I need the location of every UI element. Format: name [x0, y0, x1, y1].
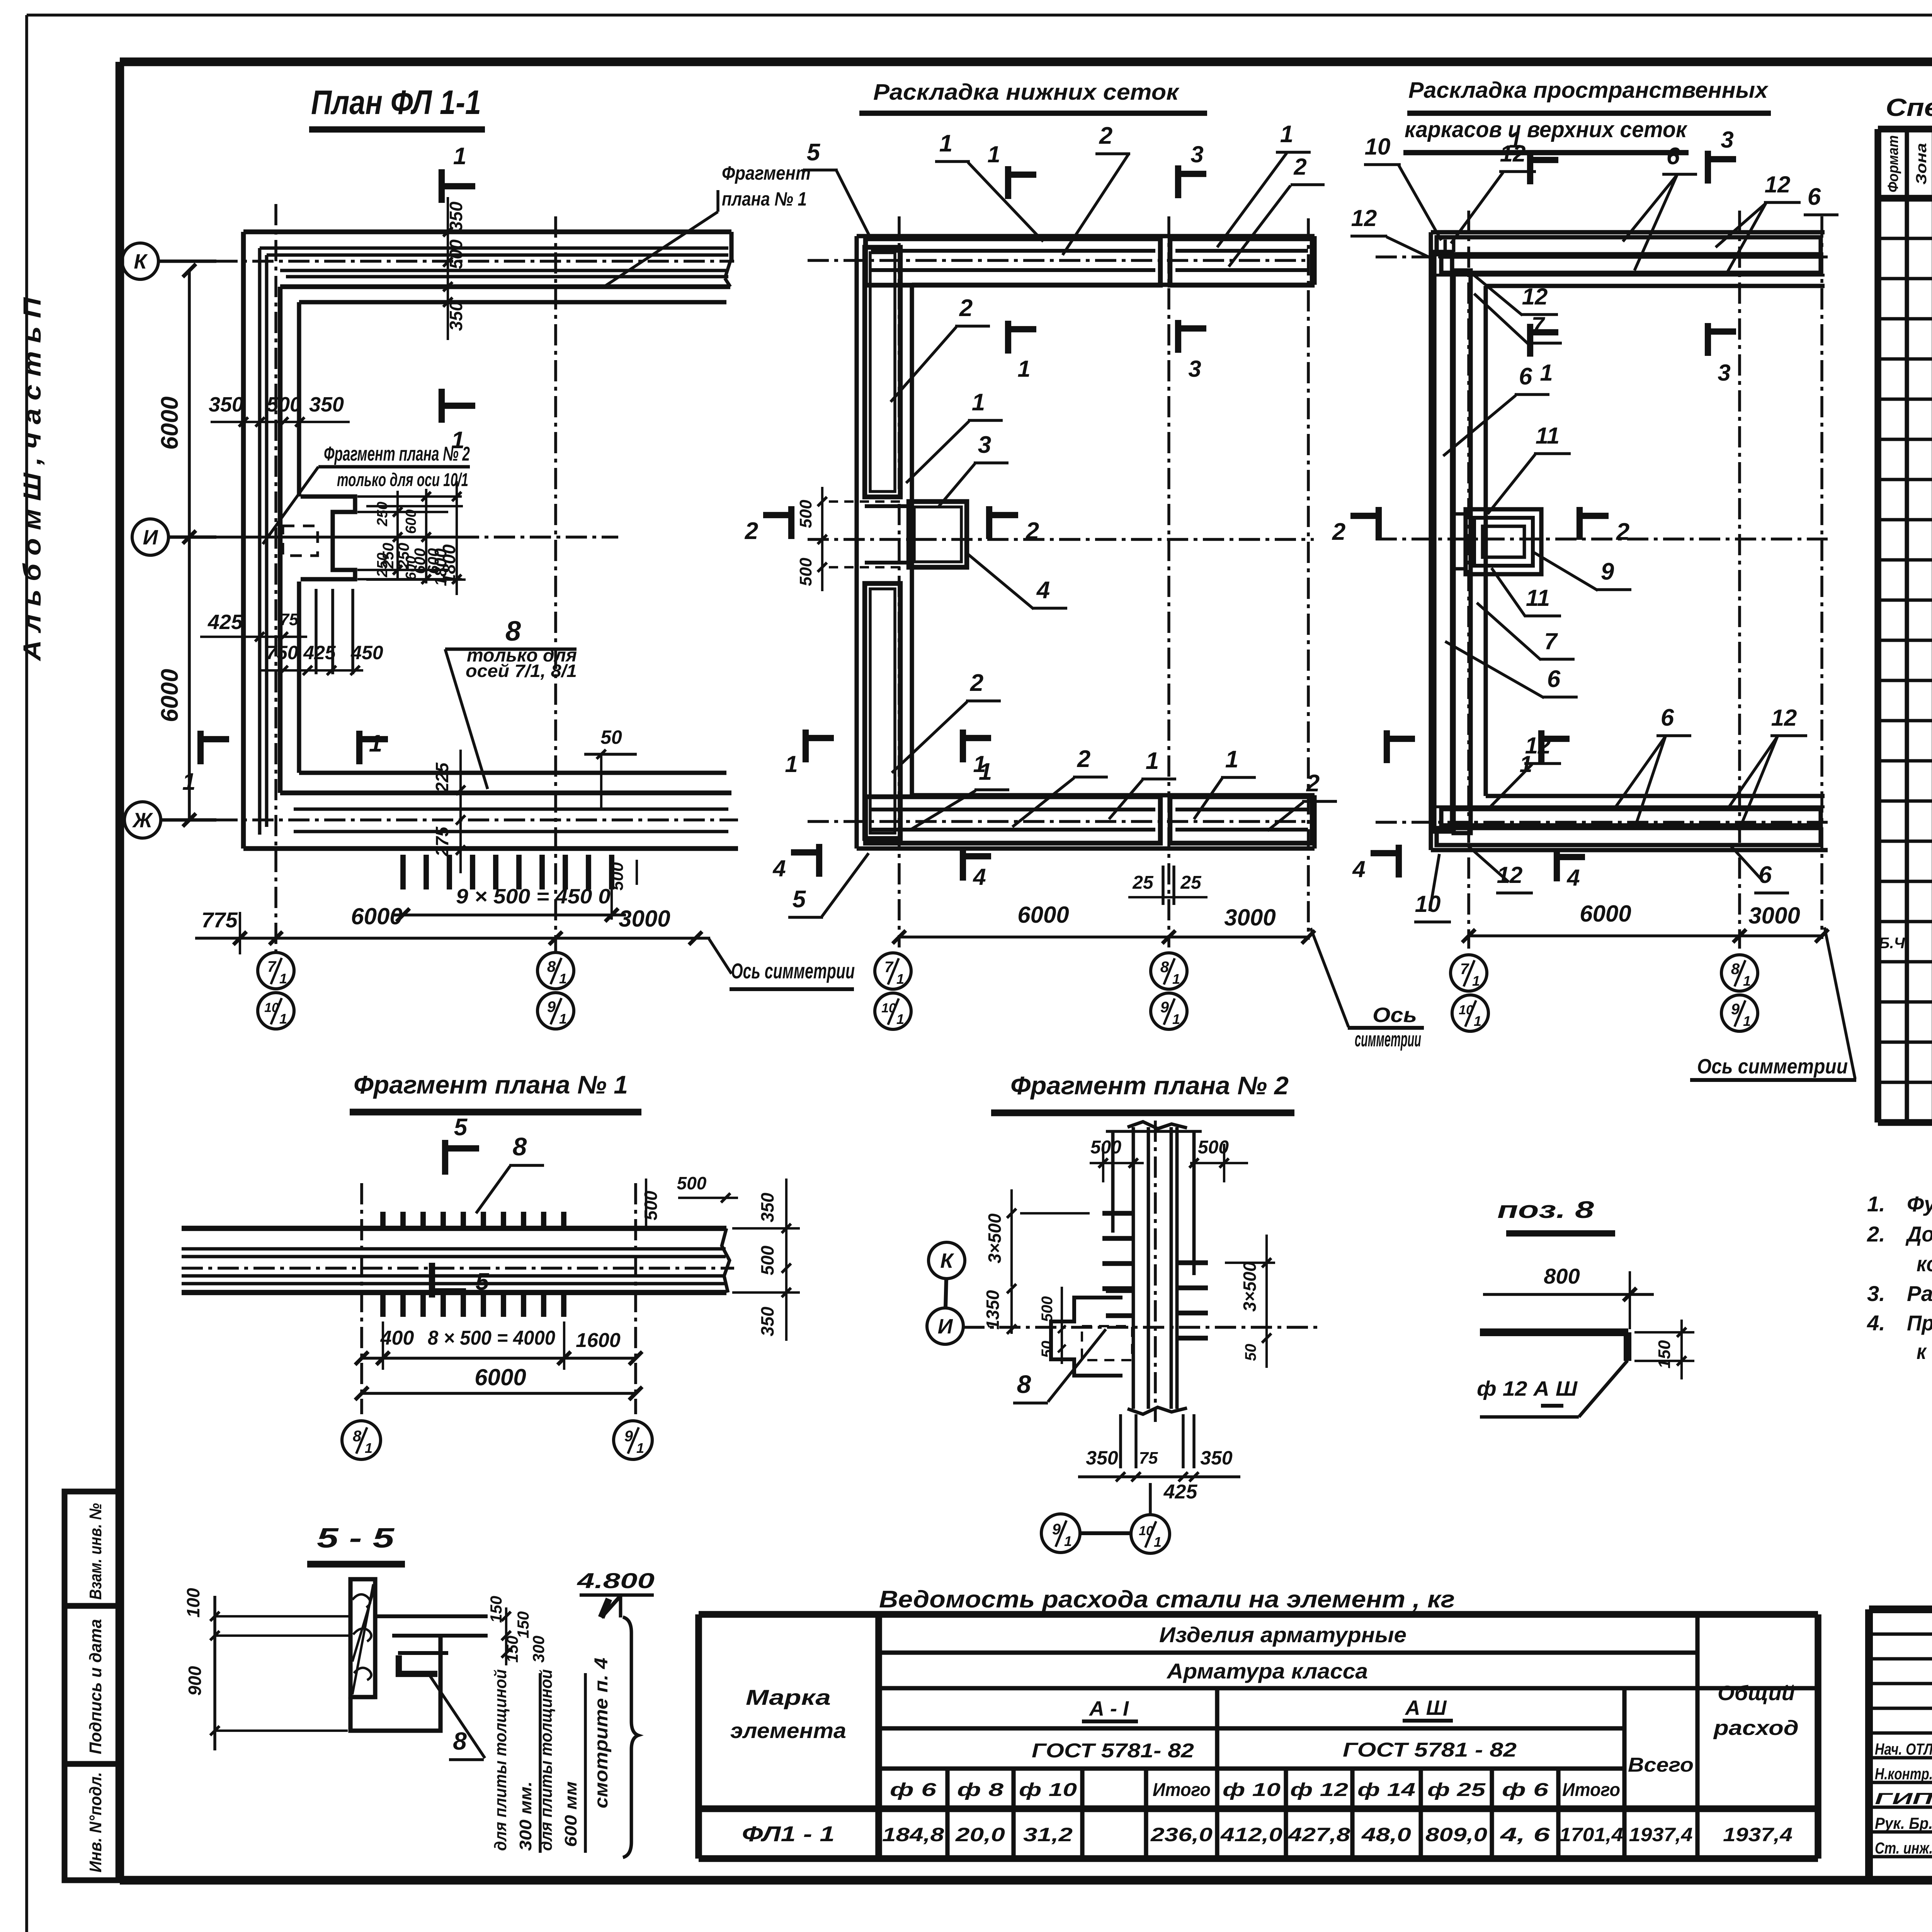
svg-text:6000: 6000	[1580, 901, 1631, 927]
svg-text:Раскладка пространственных: Раскладка пространственных	[1408, 78, 1769, 103]
svg-text:12: 12	[1522, 284, 1548, 310]
plan1 I-axis column notch	[301, 497, 355, 579]
svg-text:400: 400	[380, 1327, 414, 1349]
svg-text:800: 800	[1544, 1264, 1580, 1288]
svg-text:ф 6: ф 6	[890, 1780, 936, 1800]
svg-text:3: 3	[1188, 356, 1201, 382]
svg-text:Инв. N°подл.: Инв. N°подл.	[86, 1772, 105, 1872]
frag2 axis circle 9/1	[1041, 1514, 1080, 1553]
svg-text:9: 9	[624, 1428, 633, 1445]
svg-text:25: 25	[1180, 872, 1202, 893]
svg-text:Итого: Итого	[1153, 1780, 1211, 1800]
svg-text:6: 6	[1759, 862, 1772, 888]
plan1 notch dashed box	[283, 526, 318, 556]
svg-text:Ось: Ось	[1372, 1003, 1417, 1027]
svg-text:только для оси 10/1: только для оси 10/1	[337, 470, 468, 490]
svg-text:К: К	[940, 1249, 954, 1272]
svg-text:Ось симметрии: Ось симметрии	[1697, 1055, 1848, 1078]
svg-text:3×500: 3×500	[1240, 1262, 1260, 1312]
frag2 strip top stub lines	[1111, 1131, 1115, 1233]
svg-text:6: 6	[1808, 184, 1821, 210]
frag1 rebar ticks bottom	[380, 1291, 386, 1317]
svg-text:10: 10	[1415, 891, 1441, 917]
title block signature grid	[1869, 1633, 1932, 1636]
svg-text:3: 3	[1718, 360, 1730, 386]
svg-text:Фрагмент: Фрагмент	[722, 162, 811, 184]
plan3 karkas rects bottom	[1437, 828, 1821, 845]
svg-text:900: 900	[185, 1666, 205, 1696]
plan1 section markers 1 left bottom	[197, 731, 204, 764]
plan3 symmetry axis right	[1820, 216, 1823, 939]
vedomost header rows	[879, 1650, 1697, 1655]
plan3 karkas rects top	[1437, 237, 1821, 254]
svg-text:ФЛ1 - 1: ФЛ1 - 1	[742, 1821, 835, 1846]
svg-text:для плиты толщиной: для плиты толщиной	[491, 1669, 510, 1851]
sheet outer thin border	[27, 14, 1932, 17]
svg-text:150: 150	[1655, 1340, 1674, 1369]
svg-text:8: 8	[505, 616, 521, 647]
frag2 strip breaks	[1128, 1122, 1187, 1129]
svg-text:1: 1	[636, 1440, 644, 1456]
svg-text:775: 775	[201, 908, 238, 932]
svg-text:Н.контр.: Н.контр.	[1875, 1765, 1932, 1783]
svg-text:12: 12	[1771, 705, 1797, 731]
svg-text:Ось симметрии: Ось симметрии	[731, 959, 855, 983]
svg-text:ф 6: ф 6	[1502, 1780, 1548, 1800]
plan3 axis circle 7/1	[1451, 955, 1487, 991]
svg-text:1: 1	[369, 730, 382, 757]
svg-text:500: 500	[757, 1245, 777, 1275]
plan2 axis 7/1 vertical	[898, 216, 901, 947]
plan3 flags top	[1527, 151, 1533, 184]
svg-text:симметрии: симметрии	[1355, 1028, 1421, 1051]
svg-text:расход: расход	[1713, 1716, 1799, 1740]
svg-text:ГИП: ГИП	[1875, 1789, 1932, 1808]
svg-text:1: 1	[453, 143, 466, 170]
plan2 flags mid	[1005, 321, 1011, 354]
svg-text:5: 5	[793, 886, 806, 913]
frag1 strip lines	[182, 1226, 726, 1231]
svg-text:ф 14: ф 14	[1357, 1780, 1415, 1800]
spec table row lines	[1878, 237, 1932, 240]
svg-text:150: 150	[503, 1636, 521, 1663]
svg-text:для плиты толщиной: для плиты толщиной	[537, 1669, 556, 1851]
svg-text:8: 8	[1731, 961, 1740, 978]
svg-text:Всего: Всего	[1628, 1754, 1694, 1776]
svg-text:А Ш: А Ш	[1405, 1696, 1447, 1719]
svg-text:7: 7	[1460, 961, 1469, 978]
svg-text:Итого: Итого	[1562, 1780, 1620, 1800]
svg-text:8: 8	[353, 1428, 362, 1445]
svg-text:1: 1	[1154, 1534, 1162, 1550]
plan1 axis circle 7/1 bottom	[258, 952, 294, 989]
svg-text:ф 10: ф 10	[1019, 1780, 1077, 1800]
plan1 top strip outer contour	[243, 230, 731, 235]
plan2 mesh rect top 2	[1170, 239, 1312, 285]
svg-text:6: 6	[1667, 143, 1680, 170]
plan3 axis 7/1 vertical	[1467, 211, 1470, 949]
5-5 pos8 rebar bar	[399, 1655, 437, 1674]
svg-text:5: 5	[476, 1269, 490, 1295]
5-5 step shape	[350, 1636, 440, 1731]
svg-text:450: 450	[350, 642, 383, 663]
plan1 axis circle 10/1 bottom	[258, 993, 294, 1029]
plan3 flags 4 bottom	[1396, 845, 1402, 878]
frag2 I axis step shape	[1051, 1298, 1122, 1376]
svg-text:Раскладка нижних сеток: Раскладка нижних сеток	[873, 80, 1180, 105]
svg-text:275: 275	[432, 826, 452, 857]
svg-text:Рук. Бр.: Рук. Бр.	[1875, 1814, 1932, 1832]
svg-text:каркасов и верхних сеток: каркасов и верхних сеток	[1405, 117, 1687, 142]
svg-text:20,0: 20,0	[955, 1824, 1005, 1845]
svg-text:250: 250	[395, 543, 412, 569]
svg-text:150: 150	[487, 1596, 505, 1623]
svg-text:250: 250	[380, 543, 397, 569]
svg-text:1: 1	[559, 971, 567, 986]
pos8 bar vertical thick	[1624, 1332, 1631, 1361]
svg-text:Ведомость расхода стали на: Ведомость расхода стали на элемент , кг	[879, 1586, 1455, 1613]
svg-text:500: 500	[641, 1190, 661, 1220]
svg-text:75: 75	[1139, 1449, 1158, 1468]
plan1 top strip inner lines	[260, 247, 728, 250]
svg-text:5: 5	[807, 139, 821, 166]
svg-text:1: 1	[279, 971, 287, 986]
svg-text:3×500: 3×500	[985, 1213, 1005, 1264]
svg-text:1: 1	[896, 971, 904, 987]
svg-text:ф 12: ф 12	[1290, 1780, 1348, 1800]
sidebar box Inv no podl	[65, 1764, 120, 1880]
svg-text:4: 4	[1036, 577, 1050, 604]
svg-text:3.: 3.	[1867, 1281, 1885, 1306]
svg-text:48,0: 48,0	[1361, 1824, 1412, 1845]
svg-text:5: 5	[454, 1114, 468, 1141]
svg-text:План ФЛ 1-1: План ФЛ 1-1	[311, 83, 481, 121]
svg-text:3000: 3000	[1748, 903, 1800, 929]
plan3 outer contour	[1431, 230, 1825, 234]
svg-text:к фундаменту смотреть лист: к фундаменту смотреть листы.	[1917, 1339, 1932, 1364]
svg-text:31,2: 31,2	[1023, 1824, 1073, 1845]
plan2 axis circle 7/1	[875, 953, 911, 989]
plan3 axis circle 8/1	[1721, 955, 1758, 991]
plan3 I-axis nested squares	[1466, 509, 1541, 574]
svg-text:25: 25	[1132, 872, 1154, 893]
plan1 section marker 1 top	[439, 169, 445, 203]
svg-text:2: 2	[1306, 770, 1320, 797]
plan2 mesh rect left lower	[865, 583, 900, 838]
svg-text:4.: 4.	[1867, 1311, 1885, 1335]
plan3 flags mid	[1527, 324, 1533, 357]
frag2 bottom stubs	[1119, 1414, 1122, 1468]
5-5 floor lines right	[375, 1614, 488, 1618]
frag1 section marker 5 mid	[429, 1263, 435, 1298]
svg-text:1: 1	[1474, 1013, 1481, 1029]
svg-text:3: 3	[1190, 141, 1203, 167]
svg-text:350: 350	[209, 393, 243, 416]
svg-text:ф 8: ф 8	[957, 1780, 1003, 1800]
svg-text:9: 9	[1160, 999, 1169, 1016]
svg-text:9: 9	[1601, 558, 1614, 585]
svg-text:1: 1	[1280, 121, 1293, 148]
frag1 axis 9/1 vertical	[634, 1183, 637, 1414]
plan1 top strip right end	[729, 232, 733, 261]
svg-text:1: 1	[1472, 973, 1480, 989]
frag2 strip center dash	[1154, 1121, 1157, 1422]
svg-text:Общий: Общий	[1718, 1682, 1795, 1705]
svg-text:750: 750	[266, 642, 298, 663]
svg-text:2: 2	[1332, 519, 1345, 545]
svg-text:500: 500	[796, 500, 815, 528]
title block outer	[1869, 1605, 1932, 1613]
plan1 extension verticals below notch	[315, 589, 318, 674]
svg-text:1: 1	[559, 1011, 567, 1027]
svg-text:6000: 6000	[156, 396, 183, 450]
svg-text:7: 7	[1531, 312, 1545, 338]
frag1-frag2 shared axis circle K	[929, 1242, 965, 1279]
frag1 rebar ticks top	[380, 1212, 386, 1231]
axis line K dash-dot	[216, 260, 734, 263]
svg-text:6000: 6000	[1017, 902, 1069, 928]
svg-text:А л ь б о м Ш , ч а с т ь П: А л ь б о м Ш , ч а с т ь П	[18, 297, 46, 662]
frag2 axis circle 10/1	[1131, 1515, 1170, 1553]
axis line Zh dash-dot	[216, 818, 738, 821]
svg-text:1: 1	[979, 759, 992, 785]
plan1 bottom strip outer contour	[243, 846, 738, 851]
svg-text:2: 2	[745, 518, 758, 544]
svg-text:8: 8	[1017, 1370, 1031, 1398]
drawing frame thick	[120, 58, 1932, 66]
svg-text:350: 350	[309, 393, 344, 416]
frag2 I axis dash line	[963, 1326, 1321, 1329]
plan3 strip inner lines bottom	[1434, 805, 1825, 808]
vedomost outer box	[699, 1611, 1818, 1618]
svg-text:1: 1	[1172, 1011, 1180, 1027]
svg-text:10: 10	[1365, 134, 1391, 160]
plan1 inner step contour bottom	[299, 770, 726, 775]
plan1 bottom strip inner lines	[294, 808, 728, 811]
axis line 8/1 vertical	[554, 216, 557, 954]
svg-text:50: 50	[600, 726, 622, 748]
plan3 axis circle 9/1	[1721, 995, 1758, 1031]
svg-text:10: 10	[264, 1000, 279, 1015]
svg-text:500: 500	[267, 393, 301, 416]
svg-text:2: 2	[959, 295, 973, 321]
svg-text:11: 11	[1526, 585, 1550, 611]
svg-text:500: 500	[1090, 1137, 1121, 1158]
svg-text:9: 9	[1052, 1521, 1061, 1538]
svg-text:425: 425	[1163, 1481, 1198, 1503]
svg-text:12: 12	[1765, 172, 1791, 197]
svg-text:12: 12	[1500, 141, 1526, 167]
plan1 inner step contour top	[299, 300, 726, 304]
svg-text:Фундамент разработан в соотв: Фундамент разработан в соответствии с се…	[1907, 1192, 1932, 1216]
svg-text:1: 1	[1172, 971, 1180, 987]
plan2 outer contour	[857, 234, 1315, 238]
plan3 axis I dash	[1376, 537, 1828, 541]
svg-text:12: 12	[1525, 733, 1551, 759]
svg-text:4: 4	[1566, 865, 1580, 891]
svg-text:Фрагмент плана № 2: Фрагмент плана № 2	[324, 443, 470, 465]
pos8 bar horizontal thick	[1480, 1328, 1628, 1336]
svg-text:6: 6	[1661, 704, 1674, 731]
svg-text:ф 12 А Ш: ф 12 А Ш	[1477, 1377, 1578, 1400]
svg-text:колонн по чертежам серии: колонн по чертежам серии У - 01 - 01 / 8…	[1917, 1252, 1932, 1276]
svg-text:Подпись и дата: Подпись и дата	[86, 1619, 105, 1754]
svg-text:225: 225	[432, 762, 452, 793]
svg-text:500: 500	[677, 1173, 707, 1193]
svg-text:1: 1	[972, 389, 985, 416]
frag2 left rebar ticks	[1102, 1211, 1133, 1216]
svg-text:6: 6	[1547, 666, 1561, 692]
svg-text:поз. 8: поз. 8	[1497, 1197, 1594, 1223]
svg-text:ГОСТ 5781 - 82: ГОСТ 5781 - 82	[1343, 1739, 1517, 1761]
plan1 rebar ticks bottom 9x500	[400, 855, 406, 889]
plan1 inner step contour left	[297, 302, 301, 497]
svg-text:2: 2	[1077, 746, 1090, 772]
svg-text:Ст. инж.: Ст. инж.	[1875, 1839, 1932, 1857]
svg-text:500: 500	[1039, 1296, 1056, 1322]
svg-text:3: 3	[978, 432, 991, 458]
plan3 axis Zh dash	[1376, 821, 1828, 824]
plan2 axis K dash	[808, 259, 1314, 262]
svg-text:9 × 500 = 450 0: 9 × 500 = 450 0	[456, 885, 611, 908]
plan1 axis circle 9/1 bottom	[537, 993, 574, 1029]
svg-text:К: К	[134, 250, 148, 273]
svg-text:6000: 6000	[351, 903, 402, 929]
plan2 axis Zh dash	[808, 820, 1314, 823]
svg-text:5 - 5: 5 - 5	[317, 1523, 395, 1554]
svg-text:1: 1	[1743, 1013, 1751, 1029]
plan2 axis circle 8/1	[1151, 953, 1187, 989]
svg-text:Разрезы с 1 -1 по 4 - 4: Разрезы с 1 -1 по 4 - 4 см. серию У - 01…	[1907, 1281, 1932, 1306]
plan3 axis circle 10/1	[1452, 995, 1488, 1031]
axis circle I left	[132, 519, 168, 555]
plan2 flags 4 bottom	[816, 844, 822, 877]
frag1 axis circle 8/1	[342, 1421, 381, 1459]
plan2 mesh rect bottom 2	[1170, 797, 1312, 843]
svg-text:600: 600	[403, 509, 419, 534]
svg-text:9: 9	[1731, 1001, 1740, 1018]
plan2 mesh rect left upper	[865, 247, 900, 497]
svg-text:3000: 3000	[1224, 905, 1276, 930]
svg-text:7: 7	[1544, 628, 1558, 654]
svg-text:6000: 6000	[474, 1364, 526, 1390]
frag2 vertical strip lines	[1132, 1127, 1135, 1409]
svg-text:2: 2	[1616, 519, 1629, 545]
axis line 7/1 vertical	[274, 204, 277, 954]
svg-text:8 × 500 = 4000: 8 × 500 = 4000	[428, 1327, 555, 1349]
svg-text:350: 350	[757, 1192, 777, 1222]
sidebar box Podpis i data	[65, 1606, 120, 1764]
svg-text:До бетонирования фундамента: До бетонирования фундамента должны быть …	[1905, 1222, 1932, 1246]
frag1 strip centerline dash	[182, 1267, 734, 1270]
svg-text:Спецификация к фундаменту мо: Спецификация к фундаменту монолитному ФЛ…	[1886, 94, 1932, 121]
svg-text:Нач. ОТЛ: Нач. ОТЛ	[1875, 1740, 1932, 1758]
plan2 flags top	[1005, 166, 1011, 199]
svg-text:1: 1	[987, 141, 1000, 167]
svg-text:1: 1	[785, 751, 798, 777]
svg-text:50: 50	[1039, 1341, 1056, 1358]
svg-text:2: 2	[1293, 154, 1306, 180]
plan3 section marker 2 left	[1376, 507, 1382, 540]
svg-text:1: 1	[1225, 746, 1238, 773]
plan3 karkas rects left	[1434, 252, 1452, 832]
svg-text:809,0: 809,0	[1425, 1824, 1487, 1845]
svg-text:4, 6: 4, 6	[1500, 1824, 1550, 1845]
svg-text:осей 7/1, 8/1: осей 7/1, 8/1	[466, 661, 577, 681]
svg-text:4: 4	[1352, 856, 1365, 882]
svg-text:1350: 1350	[983, 1290, 1003, 1330]
spec table outer and header lines	[1878, 126, 1932, 133]
svg-text:8: 8	[453, 1727, 467, 1755]
plan2 mesh rect bottom 1	[866, 797, 1160, 843]
svg-text:1800: 1800	[439, 544, 459, 584]
svg-text:300 мм.: 300 мм.	[516, 1781, 535, 1851]
svg-text:Фрагмент плана № 1: Фрагмент плана № 1	[354, 1070, 628, 1099]
plan2 axis 8/1 vertical	[1167, 216, 1170, 947]
svg-text:350: 350	[1086, 1447, 1118, 1469]
frag1 section marker 5 top	[442, 1140, 448, 1175]
svg-text:1600: 1600	[576, 1329, 621, 1352]
svg-text:600 мм: 600 мм	[561, 1781, 580, 1847]
svg-text:Зона: Зона	[1913, 143, 1930, 185]
svg-text:412,0: 412,0	[1220, 1824, 1283, 1845]
svg-text:3: 3	[1721, 127, 1733, 153]
plan1 notch dim extension lines	[357, 495, 462, 498]
svg-text:Марка: Марка	[746, 1685, 831, 1709]
svg-text:150: 150	[514, 1611, 532, 1638]
vedomost column lines	[875, 1614, 882, 1859]
svg-text:ГОСТ 5781- 82: ГОСТ 5781- 82	[1032, 1740, 1194, 1762]
plan1 left strip outer contour	[241, 232, 246, 849]
frag1 strip right break	[722, 1228, 730, 1293]
svg-text:184,8: 184,8	[882, 1824, 944, 1845]
svg-text:ф 10: ф 10	[1223, 1780, 1281, 1800]
svg-text:1: 1	[1064, 1533, 1072, 1549]
svg-text:425: 425	[207, 611, 243, 634]
plan1 notch vertical dim lines	[396, 491, 399, 580]
plan2 section marker 2 mid	[986, 506, 992, 539]
svg-text:И: И	[143, 526, 158, 549]
plan1 axis circle 8/1 bottom	[537, 952, 574, 989]
svg-text:смотрите п. 4: смотрите п. 4	[591, 1658, 612, 1808]
svg-text:425: 425	[303, 642, 336, 663]
frag2 right rebar ticks	[1177, 1260, 1208, 1265]
svg-text:6000: 6000	[156, 669, 183, 722]
plan3 section marker 2 mid	[1577, 507, 1583, 540]
plan2 section marker 2 left	[788, 506, 794, 539]
axis circle K left	[122, 243, 158, 279]
axis line I dash-dot	[168, 536, 458, 539]
svg-text:100: 100	[183, 1588, 203, 1617]
plan3 strip inner lines top	[1434, 274, 1825, 277]
svg-text:50: 50	[1242, 1344, 1259, 1361]
svg-text:2.: 2.	[1867, 1222, 1885, 1246]
sidebar box Vzam inv no	[65, 1492, 120, 1606]
svg-text:8: 8	[513, 1132, 527, 1161]
plan3 flags bottom	[1384, 730, 1390, 763]
plan1 left strip inner lines	[258, 248, 262, 835]
svg-text:2: 2	[1099, 122, 1112, 149]
plan2 axis I dash	[808, 538, 1314, 541]
plan2 symmetry axis right	[1307, 218, 1310, 940]
svg-text:4: 4	[973, 864, 986, 890]
svg-text:75: 75	[280, 610, 299, 629]
svg-text:7: 7	[267, 958, 277, 975]
svg-text:Взам. инв. №: Взам. инв. №	[86, 1503, 105, 1600]
5-5 curly brace	[623, 1617, 638, 1857]
svg-text:элемента: элемента	[730, 1718, 846, 1743]
svg-text:1701,4: 1701,4	[1560, 1824, 1623, 1845]
